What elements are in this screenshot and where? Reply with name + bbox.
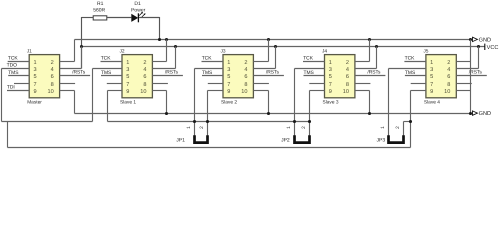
TDI chain line segment B [108,121,310,123]
J4 pin10 drop to GND line [369,91,371,114]
J4 TCK label + pin1 wire [303,55,325,61]
connector J1 (Master) [27,49,60,106]
J4 pin10 wire to GND [355,90,370,92]
svg-text:Slave 2: Slave 2 [221,99,237,105]
J2 pin10 drop to GND line [166,91,168,114]
svg-text:7: 7 [126,82,129,88]
wire R1 to D1 [107,17,132,19]
svg-text:5: 5 [430,74,433,80]
J4 pin8 wire [355,83,371,85]
J1 TCK label + pin1 wire [8,55,30,61]
connector J3 (Slave 2) [221,49,254,106]
LED D1 Power [131,1,146,22]
svg-text:GND: GND [479,37,491,43]
svg-text:5: 5 [33,74,36,80]
J2 pin3 drop [92,69,94,122]
J1 pin7 wire [14,83,29,85]
svg-text:GND: GND [479,111,491,117]
J1 TDO left drop [1,69,3,122]
svg-text:VCC: VCC [487,45,499,51]
J1 /RSTs label + pin6 wire [60,70,91,76]
J2 pin9 riser [107,91,109,122]
jumper JP3 [377,126,404,144]
svg-text:Slave 3: Slave 3 [323,99,339,105]
svg-text:6: 6 [346,74,349,80]
J3 TMS label + pin5 wire [202,70,223,76]
svg-text:10: 10 [140,89,146,95]
J5 pin9 wire [411,90,426,92]
svg-text:7: 7 [227,82,230,88]
J5 pin9 riser/drop to bottom bus [410,91,412,148]
svg-text:3: 3 [430,67,433,73]
J5 pin10 wire to GND [456,90,470,92]
svg-text:J3: J3 [221,49,226,55]
svg-text:6: 6 [447,74,450,80]
svg-text:TCK: TCK [202,55,213,61]
svg-text:1: 1 [430,60,433,66]
svg-text:3: 3 [33,67,36,73]
jumper JP1 [176,126,207,144]
svg-text:2: 2 [346,60,349,66]
J2 TMS label + pin5 wire [101,70,122,76]
VCC flag right [485,44,499,51]
J2 pin8 wire [152,83,168,85]
svg-text:TMS: TMS [304,70,315,76]
svg-text:1: 1 [33,60,36,66]
svg-text:9: 9 [329,89,332,95]
J1 TDO label + pin3 wire [2,63,30,69]
svg-text:7: 7 [33,82,36,88]
svg-text:10: 10 [444,89,450,95]
J3 pin3 drop to JP1 pin1 [194,69,196,136]
svg-text:TCK: TCK [303,55,314,61]
J3 pin2 wire to GND [253,61,268,63]
connector J2 (Slave 1) [120,49,153,106]
J4 pin3 drop to JP2 pin1 [294,69,296,136]
svg-text:Slave 4: Slave 4 [424,99,440,105]
J4 pin9 wire [310,90,325,92]
J1 pin10 wire to GND [60,90,75,92]
J4 /RSTs label + pin6 wire [355,70,386,76]
svg-text:Master: Master [27,99,42,105]
bottom bus wire [8,147,411,149]
svg-text:5: 5 [126,74,129,80]
svg-text:J1: J1 [27,49,32,55]
J1 pin8 wire [60,83,76,85]
J2 TCK label + pin1 wire [101,55,123,61]
svg-text:R1: R1 [97,1,104,7]
J1 pin4 wire to VCC [60,47,82,69]
J5 TCK label + pin1 wire [404,55,426,61]
svg-text:2: 2 [51,60,54,66]
svg-text:4: 4 [447,67,450,73]
connector J5 (Slave 4) [423,49,456,106]
svg-text:5: 5 [227,74,230,80]
J4 pin7 wire [309,83,324,85]
VCC top bus [82,46,485,48]
svg-text:4: 4 [244,67,247,73]
svg-text:/RSTs: /RSTs [72,70,86,76]
svg-text:1: 1 [380,126,386,129]
svg-text:1: 1 [329,60,332,66]
J5 TMS label + pin5 wire [405,70,426,76]
J2 pin2 wire to GND [152,61,166,63]
svg-text:1: 1 [286,126,292,129]
GND top bus [75,39,473,41]
svg-text:2: 2 [143,60,146,66]
svg-text:6: 6 [51,74,54,80]
J3 pin4 wire to VCC [253,47,275,69]
svg-text:3: 3 [126,67,129,73]
svg-text:/RSTs: /RSTs [165,70,179,76]
GND flag top right [473,37,492,43]
GND bus left corner down to J1 pin2 [74,40,76,62]
J2 pin4 wire to VCC [152,47,175,69]
svg-text:6: 6 [244,74,247,80]
svg-text:J4: J4 [322,49,327,55]
svg-text:8: 8 [244,82,247,88]
J5 pin3 drop to JP3 pin1 [388,69,390,136]
J3 pin3 wire [195,68,224,70]
svg-text:5: 5 [329,74,332,80]
J5 /RSTs label + pin6 wire [456,70,487,76]
J3 pin7 wire [208,83,223,85]
connector J4 (Slave 3) [322,49,355,106]
J3 pin10 drop to GND line [268,91,270,114]
svg-text:TCK: TCK [101,55,112,61]
GND bottom line [75,113,471,115]
junction dots on GND bottom line [165,112,472,115]
J4 pin9 drop to JP2 pin2 [309,91,311,136]
svg-text:4: 4 [346,67,349,73]
J3 pin10 wire to GND [253,90,268,92]
J3 pin8 wire [253,83,269,85]
svg-text:4: 4 [51,67,54,73]
J1 pin10 drop to GND line [74,91,76,114]
JP3 pin2 leg riser [403,122,405,136]
svg-text:2: 2 [199,126,205,129]
resistor R1 [93,1,107,20]
svg-text:JP1: JP1 [176,138,185,144]
svg-text:Power: Power [131,7,146,13]
svg-text:3: 3 [227,67,230,73]
wire VCC to R1 left lead [82,17,94,69]
junction dots on GND bus [158,38,472,41]
svg-text:9: 9 [33,89,36,95]
J3 pin9 wire [208,90,224,92]
svg-text:JP2: JP2 [281,138,290,144]
TDI chain line segment at JP3 [404,121,411,123]
J5 pin2 wire to GND [456,61,470,63]
TDI chain line segment A [2,121,93,123]
svg-text:9: 9 [227,89,230,95]
svg-text:D1: D1 [134,1,141,7]
svg-text:10: 10 [343,89,349,95]
J2 pin9 wire [108,90,123,92]
svg-text:TMS: TMS [101,70,112,76]
svg-text:2: 2 [301,126,307,129]
junction dots on TDI line [193,120,412,123]
J2 pin2 riser to GND bus [166,40,168,62]
svg-text:2: 2 [447,60,450,66]
svg-text:10: 10 [241,89,247,95]
svg-text:7: 7 [430,82,433,88]
svg-text:9: 9 [430,89,433,95]
svg-text:J2: J2 [120,49,125,55]
svg-text:4: 4 [143,67,146,73]
J4 pin4 wire to VCC [355,47,377,69]
svg-text:TDO: TDO [7,63,18,69]
svg-text:6: 6 [143,74,146,80]
J5 GND rail vertical [470,40,472,114]
svg-text:560R: 560R [93,7,105,13]
svg-text:1: 1 [227,60,230,66]
svg-text:8: 8 [447,82,450,88]
svg-text:1: 1 [186,126,192,129]
J3 pin9 drop to JP1 pin2 [207,91,209,136]
svg-text:TMS: TMS [202,70,213,76]
J5 pin7 wire [411,83,426,85]
svg-text:TMS: TMS [405,70,416,76]
svg-text:2: 2 [244,60,247,66]
svg-text:TCK: TCK [8,55,19,61]
svg-text:1: 1 [126,60,129,66]
svg-text:9: 9 [126,89,129,95]
J3 pin2 riser to GND bus [268,40,270,62]
J1 pin2 wire to GND [60,61,75,63]
wire D1 cathode down to GND bus [139,17,159,40]
junction dots on VCC bus [80,45,480,48]
J2 pin3 wire [93,68,123,70]
J1 TMS label + pin5 wire [8,70,29,76]
J1 TDI label + pin9 wire [7,85,29,91]
svg-text:TMS: TMS [8,70,19,76]
J5 pin3 wire [389,68,426,70]
J3 /RSTs label + pin6 wire [253,70,284,76]
J5 pin8 wire [456,83,472,85]
J4 pin2 wire to GND [355,61,370,63]
GND flag bottom right [473,111,492,117]
svg-text:/RSTs: /RSTs [266,70,280,76]
svg-text:8: 8 [51,82,54,88]
svg-text:/RSTs: /RSTs [367,70,381,76]
svg-text:Slave 1: Slave 1 [120,99,136,105]
J4 pin3 wire [295,68,325,70]
svg-text:8: 8 [143,82,146,88]
J5 pin4 wire to VCC [456,47,478,69]
J3 TCK label + pin1 wire [202,55,224,61]
svg-text:2: 2 [395,126,401,129]
jumper JP2 [281,126,309,144]
J4 pin2 riser to GND bus [369,40,371,62]
svg-text:JP3: JP3 [377,138,386,144]
J2 /RSTs label + pin6 wire [152,70,183,76]
svg-text:3: 3 [329,67,332,73]
J4 TMS label + pin5 wire [304,70,325,76]
J2 pin7 wire [107,83,122,85]
J2 pin10 wire to GND [152,90,166,92]
bottom bus left riser [7,122,9,148]
svg-text:J5: J5 [423,49,428,55]
svg-text:TCK: TCK [405,55,416,61]
svg-text:7: 7 [329,82,332,88]
svg-text:8: 8 [346,82,349,88]
svg-text:10: 10 [47,89,53,95]
svg-text:TDI: TDI [7,85,15,91]
